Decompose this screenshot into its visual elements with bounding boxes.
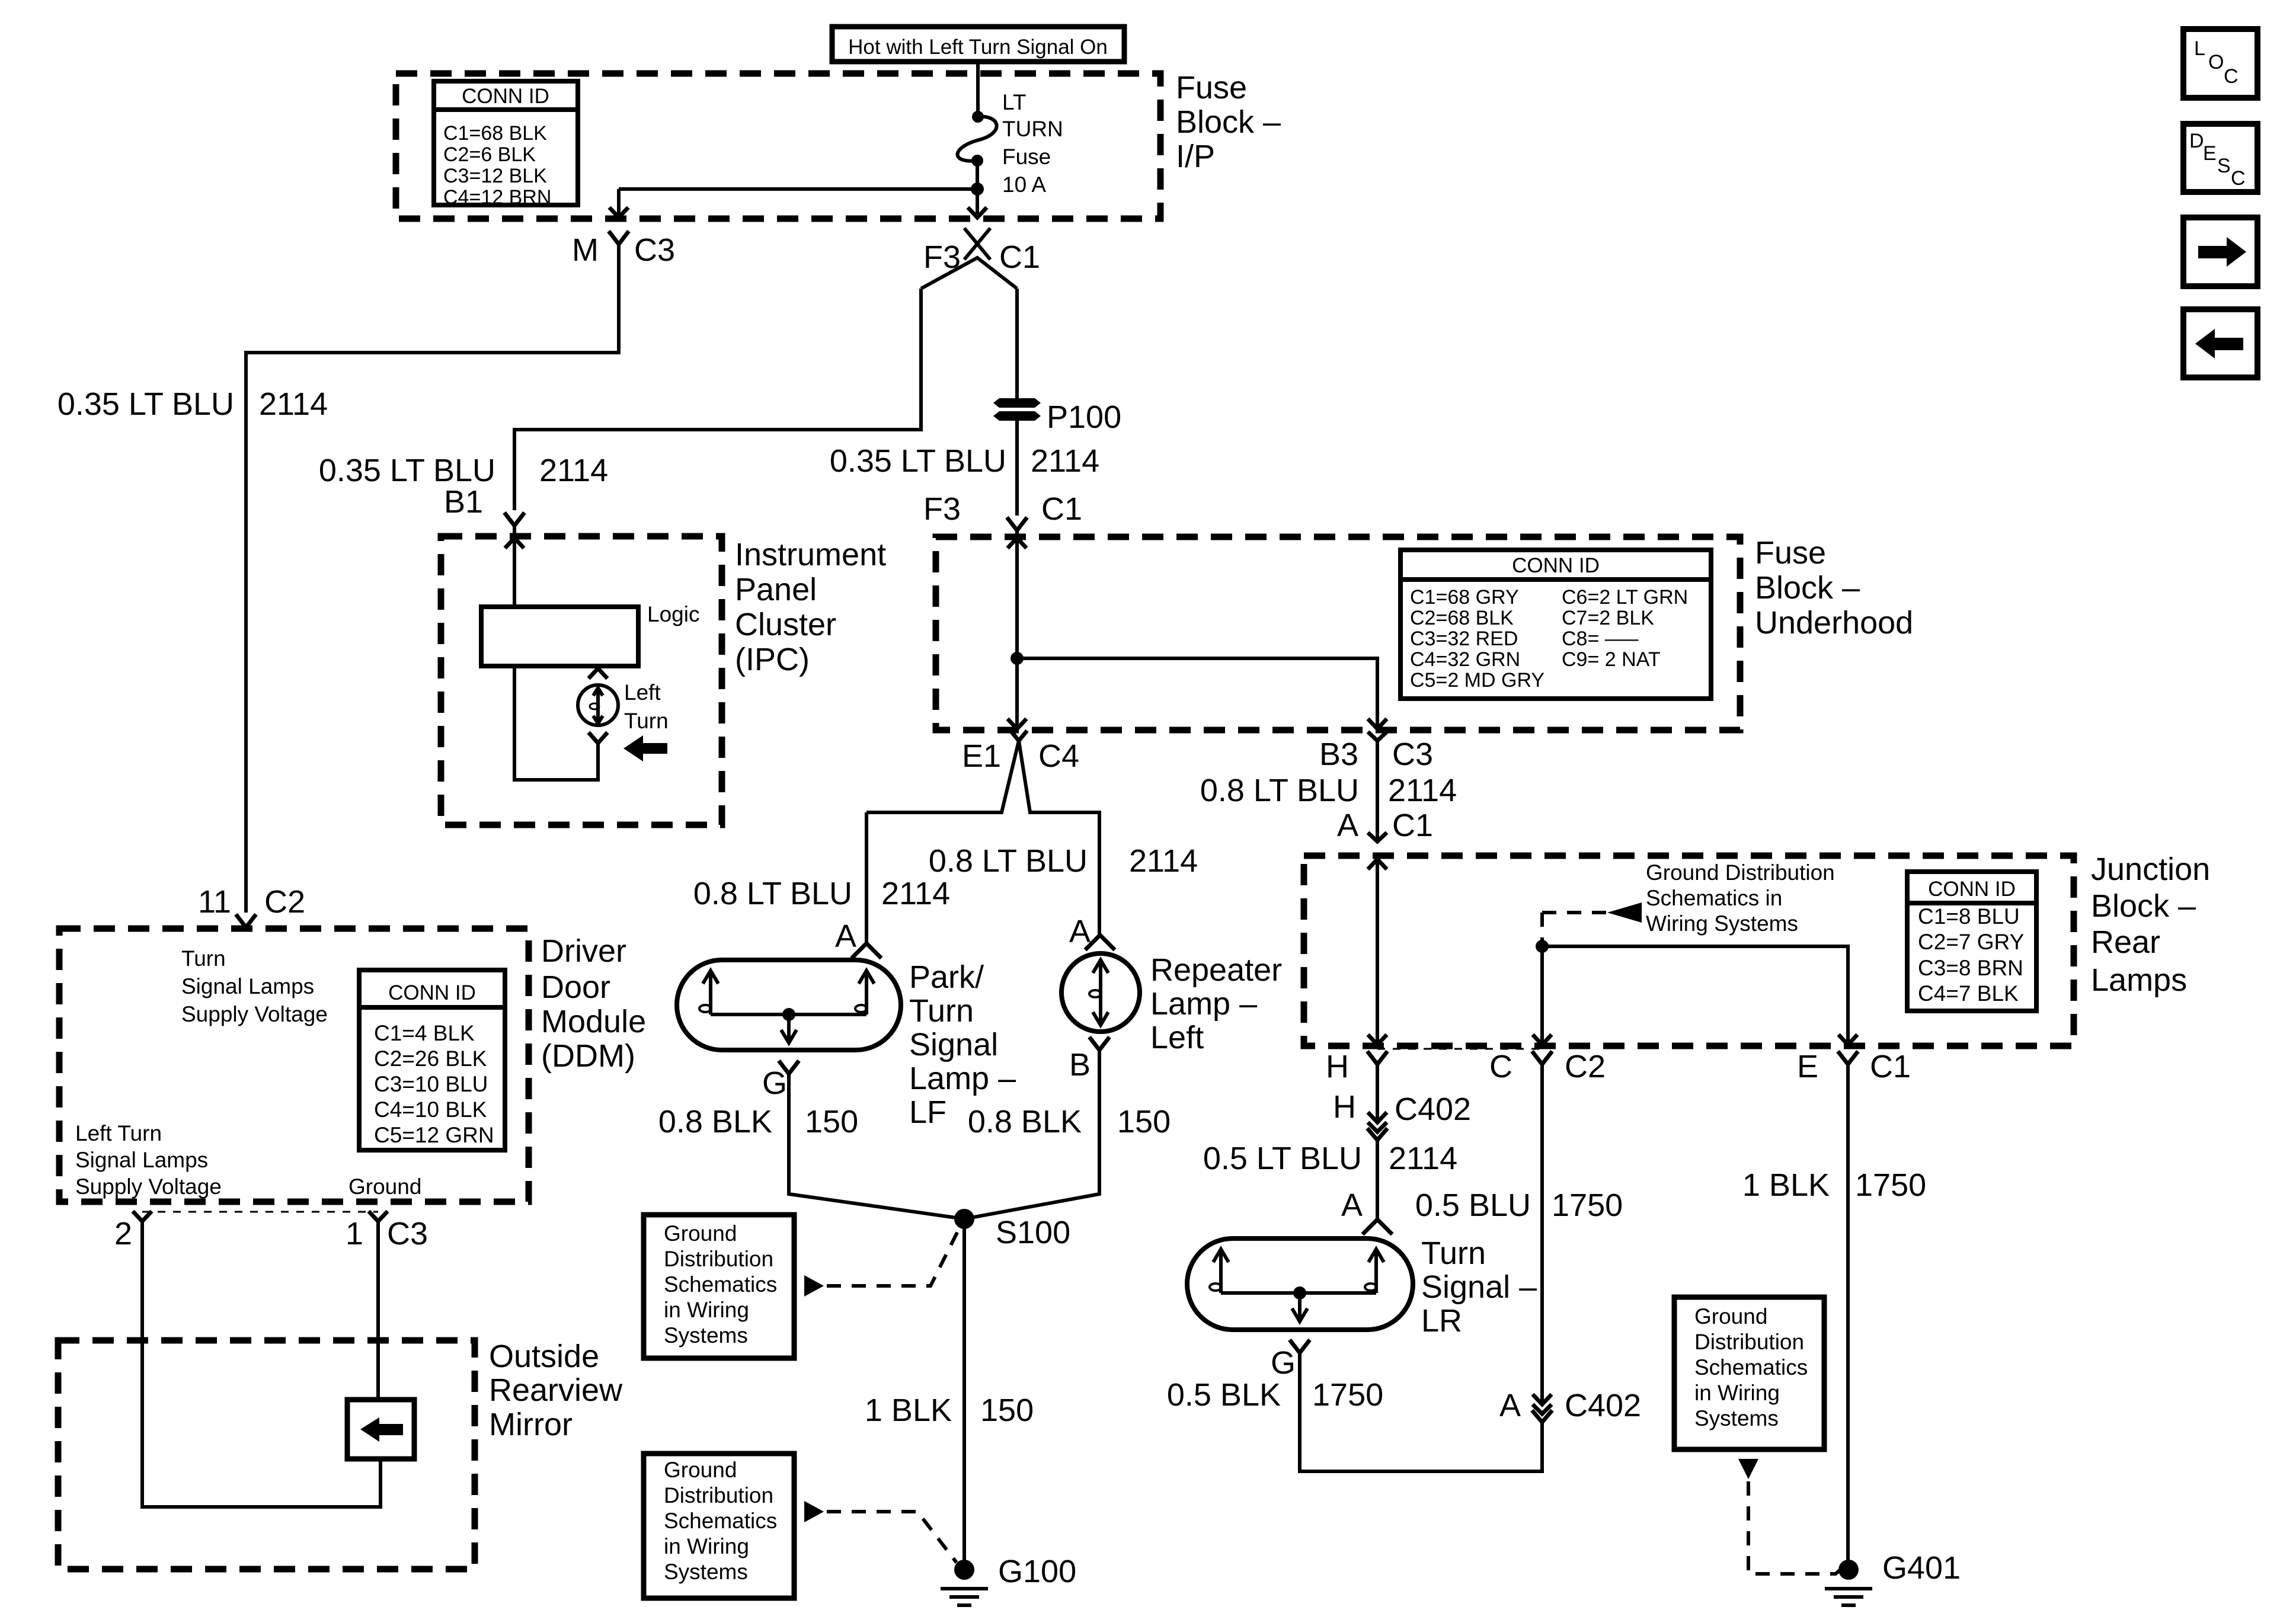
svg-text:S100: S100 bbox=[996, 1215, 1070, 1250]
connector M C3 bbox=[572, 231, 675, 268]
svg-text:C2=7 GRY: C2=7 GRY bbox=[1918, 930, 2024, 954]
svg-text:Panel: Panel bbox=[735, 572, 817, 607]
svg-text:LR: LR bbox=[1421, 1303, 1462, 1339]
wire M-C3 to DDM pin 11 bbox=[246, 244, 619, 913]
connector G (LF lamp) bbox=[762, 1061, 799, 1101]
Fuse Block I/P enclosure bbox=[396, 73, 1160, 219]
svg-text:E: E bbox=[2203, 142, 2217, 165]
svg-text:C6=2 LT GRN: C6=2 LT GRN bbox=[1562, 586, 1688, 609]
wire split below F3 C1 bbox=[921, 258, 1017, 289]
svg-text:2114: 2114 bbox=[1129, 843, 1198, 879]
Repeater Lamp Left label bbox=[1150, 952, 1282, 1055]
svg-text:Distribution: Distribution bbox=[664, 1247, 773, 1271]
svg-text:0.8 BLK: 0.8 BLK bbox=[968, 1104, 1082, 1140]
svg-text:D: D bbox=[2189, 130, 2204, 152]
svg-text:0.35 LT BLU: 0.35 LT BLU bbox=[830, 443, 1006, 479]
Ground Distribution reference box 2 bbox=[644, 1454, 794, 1598]
Driver Door Module enclosure bbox=[59, 929, 529, 1202]
wire split E1 C4 to lamps bbox=[866, 741, 1101, 943]
svg-text:2: 2 bbox=[114, 1216, 132, 1251]
svg-text:Turn: Turn bbox=[181, 946, 226, 971]
svg-text:Door: Door bbox=[541, 969, 610, 1005]
connector F3 C1 (underhood) bbox=[923, 491, 1082, 530]
svg-text:C4=10 BLK: C4=10 BLK bbox=[374, 1097, 487, 1122]
svg-text:C2=6 BLK: C2=6 BLK bbox=[443, 143, 536, 166]
connector A C1 (junction block) bbox=[1337, 808, 1433, 843]
svg-text:C3=32 RED: C3=32 RED bbox=[1410, 628, 1518, 650]
connector A (repeater lamp) bbox=[1069, 914, 1115, 950]
connector B3 C3 bbox=[1319, 732, 1433, 772]
svg-text:I/P: I/P bbox=[1176, 139, 1215, 174]
thin dashed connector line H to C bbox=[1377, 1048, 1542, 1050]
leader to G100 bbox=[804, 1501, 957, 1563]
connector 1 C3 bbox=[346, 1211, 428, 1251]
right arrow button bbox=[2183, 217, 2257, 286]
svg-text:C: C bbox=[1489, 1049, 1512, 1084]
connector G (LR lamp) bbox=[1271, 1340, 1310, 1381]
wire B3 to A bbox=[1376, 741, 1379, 841]
svg-text:Lamp –: Lamp – bbox=[1150, 986, 1257, 1022]
svg-text:Block –: Block – bbox=[2091, 888, 2196, 924]
wire P100 to F3 C1 underhood bbox=[1015, 421, 1019, 516]
svg-text:1750: 1750 bbox=[1855, 1167, 1926, 1203]
svg-text:Rear: Rear bbox=[2091, 924, 2160, 960]
wire label 0.8 BLK 150 (repeater) bbox=[968, 1104, 1171, 1140]
wire C402 to A bbox=[1376, 1140, 1379, 1219]
Ground Distribution reference box 3 bbox=[1674, 1297, 1824, 1449]
Park/Turn Signal Lamp LF label bbox=[909, 959, 1016, 1130]
svg-text:2114: 2114 bbox=[259, 386, 328, 422]
ground G100 bbox=[941, 1554, 1076, 1605]
IPC label bbox=[735, 537, 886, 677]
wire pin 2 loop bbox=[142, 1221, 380, 1507]
svg-text:Turn: Turn bbox=[624, 709, 669, 733]
Junction Block label bbox=[2091, 852, 2210, 998]
svg-text:2114: 2114 bbox=[1389, 1141, 1457, 1176]
svg-text:C: C bbox=[2231, 167, 2246, 190]
svg-text:TURN: TURN bbox=[1002, 117, 1063, 141]
Turn Signal LR lamp bbox=[1187, 1238, 1413, 1330]
svg-text:2114: 2114 bbox=[881, 876, 950, 911]
wire label 0.8 LT BLU 2114 (LF) bbox=[693, 876, 950, 911]
svg-text:1 BLK: 1 BLK bbox=[1742, 1167, 1830, 1203]
IPC left arrow icon bbox=[623, 735, 667, 761]
wire label 0.8 BLK 150 (LF) bbox=[658, 1104, 858, 1140]
svg-text:Module: Module bbox=[541, 1004, 646, 1039]
LOC button bbox=[2183, 29, 2257, 98]
Fuse Block Underhood label bbox=[1755, 535, 1913, 641]
svg-text:Left: Left bbox=[1150, 1020, 1204, 1055]
svg-text:H: H bbox=[1326, 1049, 1349, 1084]
svg-text:A: A bbox=[1069, 914, 1091, 949]
svg-text:CONN ID: CONN ID bbox=[462, 85, 549, 108]
svg-text:Repeater: Repeater bbox=[1150, 952, 1282, 988]
svg-text:0.5 BLK: 0.5 BLK bbox=[1167, 1377, 1281, 1413]
svg-text:C1=8 BLU: C1=8 BLU bbox=[1918, 904, 2020, 929]
svg-text:(IPC): (IPC) bbox=[735, 642, 810, 677]
svg-text:2114: 2114 bbox=[1031, 443, 1099, 479]
dashed stub to junction dot bbox=[1540, 913, 1544, 942]
svg-text:Signal Lamps: Signal Lamps bbox=[181, 974, 314, 998]
svg-text:Schematics in: Schematics in bbox=[1646, 886, 1782, 910]
svg-text:LT: LT bbox=[1002, 90, 1026, 114]
wire label 1 BLK 1750 bbox=[1742, 1167, 1926, 1203]
pass-through connector P100 bbox=[993, 398, 1121, 435]
wire label 0.35 LT BLU 2114 (underhood branch) bbox=[830, 443, 1099, 479]
wire label 0.5 BLK 1750 bbox=[1167, 1377, 1383, 1413]
CONN ID table Fuse Block Underhood bbox=[1400, 550, 1711, 699]
svg-text:Instrument: Instrument bbox=[735, 537, 886, 572]
svg-text:C2=68 BLK: C2=68 BLK bbox=[1410, 607, 1514, 629]
svg-text:H: H bbox=[1333, 1089, 1356, 1125]
connector B (repeater lamp) bbox=[1069, 1037, 1109, 1083]
svg-text:in Wiring: in Wiring bbox=[664, 1534, 749, 1558]
svg-text:Systems: Systems bbox=[1694, 1406, 1779, 1430]
svg-text:Lamps: Lamps bbox=[2091, 962, 2187, 998]
svg-text:CONN ID: CONN ID bbox=[388, 981, 476, 1004]
svg-text:in Wiring: in Wiring bbox=[1694, 1381, 1780, 1405]
connector A (LF lamp) bbox=[835, 918, 881, 958]
wire C2 down bbox=[1540, 1064, 1544, 1404]
svg-text:Outside: Outside bbox=[489, 1339, 599, 1374]
svg-text:11: 11 bbox=[198, 884, 231, 920]
svg-text:Rearview: Rearview bbox=[489, 1372, 623, 1408]
wire label 0.5 LT BLU 2114 bbox=[1203, 1141, 1457, 1176]
Park/Turn Signal Lamp LF bbox=[677, 960, 901, 1050]
wire pin 1 to mirror lamp bbox=[376, 1221, 380, 1400]
wire E to G401 bbox=[1846, 1064, 1850, 1563]
svg-text:G100: G100 bbox=[998, 1554, 1076, 1589]
splice S100 bbox=[954, 1209, 1070, 1250]
svg-text:L: L bbox=[2194, 37, 2205, 60]
svg-text:Supply Voltage: Supply Voltage bbox=[75, 1174, 222, 1199]
svg-text:Logic: Logic bbox=[647, 602, 699, 626]
svg-text:150: 150 bbox=[805, 1104, 858, 1140]
Repeater Lamp Left bbox=[1061, 953, 1140, 1032]
svg-text:10 A: 10 A bbox=[1002, 172, 1046, 197]
svg-text:1750: 1750 bbox=[1312, 1377, 1383, 1413]
CONN ID table Junction Block bbox=[1907, 872, 2036, 1011]
svg-text:C8= –––: C8= ––– bbox=[1562, 628, 1639, 650]
connector B1 bbox=[444, 484, 525, 526]
svg-text:G: G bbox=[1271, 1345, 1296, 1381]
connector A C402 bbox=[1499, 1388, 1641, 1423]
svg-text:0.8 LT BLU: 0.8 LT BLU bbox=[693, 876, 852, 911]
svg-text:Fuse: Fuse bbox=[1176, 70, 1247, 105]
wire label 0.35 LT BLU 2114 (IPC branch) bbox=[319, 453, 608, 488]
svg-text:C2: C2 bbox=[264, 884, 305, 920]
svg-text:(DDM): (DDM) bbox=[541, 1038, 635, 1074]
svg-text:Mirror: Mirror bbox=[489, 1407, 573, 1442]
svg-text:0.8 LT BLU: 0.8 LT BLU bbox=[929, 843, 1088, 879]
wire label 1 BLK 150 bbox=[865, 1393, 1034, 1428]
connector H (junction) bbox=[1326, 1049, 1387, 1084]
svg-text:1: 1 bbox=[346, 1216, 363, 1251]
CONN ID table Fuse Block I/P bbox=[434, 81, 578, 209]
wire label 0.35 LT BLU 2114 bbox=[57, 386, 328, 422]
svg-text:Ground Distribution: Ground Distribution bbox=[1646, 860, 1835, 885]
svg-text:C4=7 BLK: C4=7 BLK bbox=[1918, 981, 2019, 1006]
wire through underhood block bbox=[1008, 538, 1027, 729]
Fuse Block I/P label bbox=[1176, 70, 1281, 174]
svg-text:Distribution: Distribution bbox=[664, 1483, 773, 1507]
svg-text:CONN ID: CONN ID bbox=[1512, 554, 1600, 577]
svg-text:C1: C1 bbox=[999, 239, 1040, 275]
svg-text:G401: G401 bbox=[1882, 1550, 1961, 1586]
svg-text:C4=12 BRN: C4=12 BRN bbox=[443, 186, 551, 209]
svg-text:1 BLK: 1 BLK bbox=[865, 1393, 952, 1428]
connector 2 bbox=[114, 1211, 152, 1251]
svg-text:0.8 LT BLU: 0.8 LT BLU bbox=[1200, 773, 1359, 808]
svg-text:C9= 2 NAT: C9= 2 NAT bbox=[1562, 648, 1661, 671]
wire fuse output with junction bbox=[609, 161, 987, 217]
svg-text:Supply Voltage: Supply Voltage bbox=[181, 1002, 328, 1026]
power label box "Hot with Left Turn Signal On" bbox=[832, 27, 1124, 62]
svg-text:B3: B3 bbox=[1319, 737, 1358, 772]
leader to G401 bbox=[1738, 1459, 1843, 1574]
DDM label bbox=[541, 933, 646, 1074]
connector H C402 bbox=[1333, 1089, 1471, 1140]
svg-text:Lamp –: Lamp – bbox=[909, 1061, 1016, 1096]
connector E1 C4 bbox=[962, 731, 1079, 774]
svg-text:150: 150 bbox=[980, 1393, 1034, 1428]
svg-text:Signal –: Signal – bbox=[1421, 1269, 1537, 1305]
svg-text:Wiring Systems: Wiring Systems bbox=[1646, 911, 1798, 936]
svg-text:C1: C1 bbox=[1870, 1049, 1911, 1084]
connector F3 C1 (Fuse Block I/P) bbox=[923, 228, 1040, 275]
connector E C1 bbox=[1797, 1049, 1911, 1084]
IPC left turn indicator lamp bbox=[578, 668, 669, 743]
wire S100 to G100 bbox=[962, 1219, 966, 1563]
Turn Signal LR label bbox=[1421, 1235, 1537, 1339]
Outside Rearview Mirror enclosure bbox=[58, 1340, 475, 1569]
svg-text:O: O bbox=[2208, 51, 2224, 73]
svg-text:Turn: Turn bbox=[909, 993, 974, 1029]
svg-text:1750: 1750 bbox=[1552, 1188, 1623, 1223]
svg-text:C1: C1 bbox=[1041, 491, 1082, 527]
svg-text:Junction: Junction bbox=[2091, 852, 2210, 887]
svg-text:Systems: Systems bbox=[664, 1560, 748, 1584]
svg-text:B1: B1 bbox=[444, 484, 483, 520]
svg-text:C3: C3 bbox=[634, 232, 675, 268]
svg-text:C3: C3 bbox=[1392, 737, 1433, 772]
wire logic to indicator lamp bbox=[514, 666, 598, 780]
svg-text:A: A bbox=[1341, 1188, 1363, 1223]
svg-text:C2=26 BLK: C2=26 BLK bbox=[374, 1046, 487, 1071]
wire B to S100 bbox=[964, 1050, 1099, 1219]
svg-text:2114: 2114 bbox=[1388, 773, 1457, 808]
svg-text:A: A bbox=[1499, 1388, 1521, 1423]
Fuse Block Underhood enclosure bbox=[936, 537, 1740, 730]
svg-text:C2: C2 bbox=[1565, 1049, 1606, 1084]
svg-text:Cluster: Cluster bbox=[735, 607, 836, 642]
svg-text:C5=2 MD GRY: C5=2 MD GRY bbox=[1410, 669, 1544, 692]
connector 11 C2 bbox=[198, 884, 305, 927]
svg-text:CONN ID: CONN ID bbox=[1928, 878, 2016, 901]
svg-text:Schematics: Schematics bbox=[664, 1272, 777, 1297]
svg-text:0.8 BLK: 0.8 BLK bbox=[658, 1104, 772, 1140]
svg-text:C4: C4 bbox=[1038, 738, 1079, 774]
svg-text:S: S bbox=[2217, 155, 2231, 177]
svg-text:Signal: Signal bbox=[909, 1027, 998, 1062]
wire to IPC B1 bbox=[514, 289, 921, 510]
wire through junction block (H) bbox=[1368, 859, 1387, 1045]
Junction Block Rear Lamps enclosure bbox=[1304, 856, 2074, 1046]
svg-text:Turn: Turn bbox=[1421, 1235, 1486, 1271]
svg-text:Block –: Block – bbox=[1176, 104, 1281, 140]
svg-text:C3=12 BLK: C3=12 BLK bbox=[443, 165, 547, 187]
wire label 0.8 LT BLU 2114 (junction) bbox=[1200, 773, 1457, 808]
svg-text:C1=4 BLK: C1=4 BLK bbox=[374, 1021, 475, 1045]
svg-text:Left Turn: Left Turn bbox=[75, 1121, 162, 1145]
svg-text:C3=8 BRN: C3=8 BRN bbox=[1918, 956, 2023, 980]
wire G to S100 bbox=[789, 1074, 964, 1219]
wire label 0.5 BLU 1750 bbox=[1415, 1188, 1623, 1223]
connector C C2 bbox=[1489, 1049, 1606, 1084]
leader to S100 bbox=[804, 1224, 961, 1297]
svg-text:Hot with Left Turn Signal On: Hot with Left Turn Signal On bbox=[848, 36, 1108, 59]
svg-text:P100: P100 bbox=[1047, 399, 1121, 435]
svg-text:C1=68 GRY: C1=68 GRY bbox=[1410, 586, 1519, 609]
svg-text:C: C bbox=[2224, 65, 2239, 88]
Instrument Panel Cluster enclosure bbox=[441, 536, 722, 825]
DDM pin function text bbox=[181, 946, 328, 1026]
svg-text:E1: E1 bbox=[962, 738, 1001, 774]
svg-text:C5=12 GRN: C5=12 GRN bbox=[374, 1123, 494, 1147]
svg-text:F3: F3 bbox=[923, 491, 961, 527]
Outside Rearview Mirror label bbox=[489, 1339, 623, 1442]
svg-text:C1=68 BLK: C1=68 BLK bbox=[443, 122, 547, 145]
svg-text:Systems: Systems bbox=[664, 1323, 748, 1347]
wire G to C402 loop bbox=[1300, 1353, 1542, 1471]
svg-text:Signal Lamps: Signal Lamps bbox=[75, 1148, 208, 1172]
wire F3C1 to P100 bbox=[1015, 289, 1019, 398]
svg-text:Ground: Ground bbox=[664, 1458, 737, 1482]
svg-text:Schematics: Schematics bbox=[664, 1509, 777, 1533]
svg-text:A: A bbox=[835, 918, 856, 954]
svg-text:Left: Left bbox=[624, 680, 661, 705]
IPC logic block bbox=[481, 602, 699, 666]
junction node and wires to C2 and E bbox=[1533, 940, 1857, 1045]
ground G401 bbox=[1825, 1550, 1961, 1605]
svg-text:Ground: Ground bbox=[348, 1174, 421, 1199]
CONN ID table DDM bbox=[359, 970, 505, 1150]
svg-text:in Wiring: in Wiring bbox=[664, 1298, 749, 1322]
svg-text:C3=10 BLU: C3=10 BLU bbox=[374, 1072, 488, 1096]
svg-text:Fuse: Fuse bbox=[1002, 145, 1051, 169]
svg-text:Park/: Park/ bbox=[909, 959, 984, 995]
wire H to C402 bbox=[1376, 1064, 1379, 1122]
svg-text:G: G bbox=[762, 1065, 787, 1101]
thin dashed connector line 2 to 1 bbox=[142, 1211, 378, 1213]
svg-text:LF: LF bbox=[909, 1094, 946, 1130]
wire from Hot box to fuse bbox=[976, 62, 980, 116]
svg-text:C402: C402 bbox=[1395, 1092, 1471, 1127]
svg-text:B: B bbox=[1069, 1047, 1091, 1083]
leader inside junction block bbox=[1542, 860, 1835, 936]
svg-text:C3: C3 bbox=[387, 1216, 428, 1251]
mirror turn signal lamp box bbox=[347, 1400, 414, 1459]
svg-text:Fuse: Fuse bbox=[1755, 535, 1826, 571]
svg-text:0.35 LT BLU: 0.35 LT BLU bbox=[57, 386, 234, 422]
svg-text:0.5 BLU: 0.5 BLU bbox=[1415, 1188, 1531, 1223]
svg-text:Ground: Ground bbox=[664, 1221, 737, 1246]
svg-text:A: A bbox=[1337, 808, 1358, 843]
svg-text:Distribution: Distribution bbox=[1694, 1330, 1804, 1354]
svg-text:Schematics: Schematics bbox=[1694, 1355, 1808, 1379]
svg-text:C4=32 GRN: C4=32 GRN bbox=[1410, 648, 1520, 671]
wire into IPC with arrow bbox=[505, 538, 524, 607]
svg-text:Driver: Driver bbox=[541, 933, 626, 969]
wire label 0.8 LT BLU 2114 (repeater) bbox=[929, 843, 1198, 879]
DESC button bbox=[2183, 124, 2257, 192]
connector A (LR lamp) bbox=[1341, 1188, 1392, 1234]
svg-text:2114: 2114 bbox=[539, 453, 608, 488]
svg-text:Underhood: Underhood bbox=[1755, 605, 1913, 641]
svg-text:0.5 LT BLU: 0.5 LT BLU bbox=[1203, 1141, 1362, 1176]
svg-text:C402: C402 bbox=[1565, 1388, 1641, 1423]
svg-text:0.35 LT BLU: 0.35 LT BLU bbox=[319, 453, 495, 488]
svg-text:150: 150 bbox=[1117, 1104, 1171, 1140]
Ground Distribution reference box 1 bbox=[644, 1215, 794, 1358]
wire to B3 bbox=[1017, 658, 1387, 729]
svg-text:Block –: Block – bbox=[1755, 570, 1860, 606]
svg-text:C1: C1 bbox=[1392, 808, 1433, 843]
svg-text:M: M bbox=[572, 232, 599, 268]
fuse LT TURN Fuse 10 A bbox=[958, 90, 1063, 197]
svg-text:C7=2 BLK: C7=2 BLK bbox=[1562, 607, 1654, 629]
left arrow button bbox=[2183, 309, 2257, 377]
svg-text:Ground: Ground bbox=[1694, 1304, 1767, 1329]
svg-text:E: E bbox=[1797, 1049, 1818, 1084]
